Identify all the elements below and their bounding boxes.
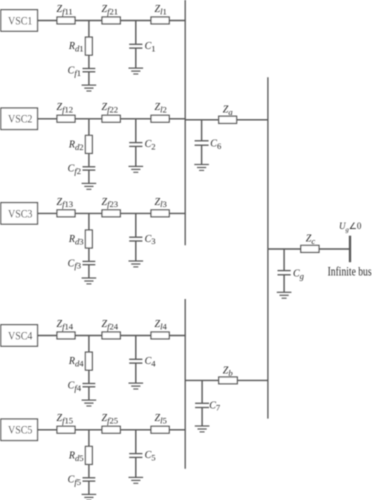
svg-text:Zl5: Zl5 bbox=[155, 413, 167, 425]
svg-text:Zc: Zc bbox=[306, 233, 316, 245]
svg-text:Zf25: Zf25 bbox=[102, 413, 119, 425]
svg-text:Zf12: Zf12 bbox=[57, 102, 74, 114]
svg-text:Cf1: Cf1 bbox=[68, 65, 81, 77]
svg-text:Zl3: Zl3 bbox=[155, 197, 167, 209]
svg-text:VSC1: VSC1 bbox=[8, 15, 32, 27]
svg-text:Cf2: Cf2 bbox=[68, 164, 81, 176]
svg-text:Rd2: Rd2 bbox=[68, 139, 84, 151]
svg-text:Zl2: Zl2 bbox=[155, 102, 167, 114]
svg-text:Cf3: Cf3 bbox=[68, 258, 81, 270]
svg-text:C6: C6 bbox=[210, 138, 222, 150]
svg-text:C7: C7 bbox=[209, 400, 221, 412]
svg-text:C3: C3 bbox=[145, 234, 156, 246]
svg-text:VSC5: VSC5 bbox=[8, 425, 33, 437]
svg-text:Zf13: Zf13 bbox=[57, 197, 74, 209]
svg-text:Zf14: Zf14 bbox=[57, 319, 74, 331]
svg-text:Rd1: Rd1 bbox=[68, 41, 84, 53]
svg-text:Za: Za bbox=[223, 104, 233, 116]
svg-text:Zb: Zb bbox=[223, 366, 234, 378]
svg-text:C2: C2 bbox=[145, 139, 156, 151]
svg-text:Zl4: Zl4 bbox=[155, 319, 168, 331]
svg-text:Zl1: Zl1 bbox=[155, 4, 167, 16]
svg-text:Zf15: Zf15 bbox=[57, 413, 74, 425]
svg-text:Cf4: Cf4 bbox=[68, 380, 82, 392]
svg-text:Zf23: Zf23 bbox=[102, 197, 119, 209]
svg-text:Cf5: Cf5 bbox=[68, 475, 81, 487]
svg-text:C5: C5 bbox=[145, 450, 156, 462]
svg-text:Zf21: Zf21 bbox=[102, 4, 119, 16]
svg-text:VSC2: VSC2 bbox=[8, 114, 32, 126]
svg-text:Infinite bus: Infinite bus bbox=[328, 264, 372, 278]
svg-text:Cg: Cg bbox=[293, 268, 305, 280]
svg-text:VSC3: VSC3 bbox=[8, 208, 33, 220]
svg-text:Rd3: Rd3 bbox=[68, 234, 84, 246]
svg-text:C1: C1 bbox=[145, 41, 156, 53]
svg-text:Zf11: Zf11 bbox=[57, 4, 73, 16]
svg-text:Zf24: Zf24 bbox=[102, 319, 119, 331]
svg-text:Ug∠0: Ug∠0 bbox=[339, 221, 362, 233]
svg-text:C4: C4 bbox=[145, 356, 157, 368]
svg-text:VSC4: VSC4 bbox=[8, 330, 33, 342]
svg-text:Rd4: Rd4 bbox=[68, 356, 84, 368]
svg-text:Zf22: Zf22 bbox=[102, 102, 119, 114]
svg-text:Rd5: Rd5 bbox=[68, 450, 84, 462]
